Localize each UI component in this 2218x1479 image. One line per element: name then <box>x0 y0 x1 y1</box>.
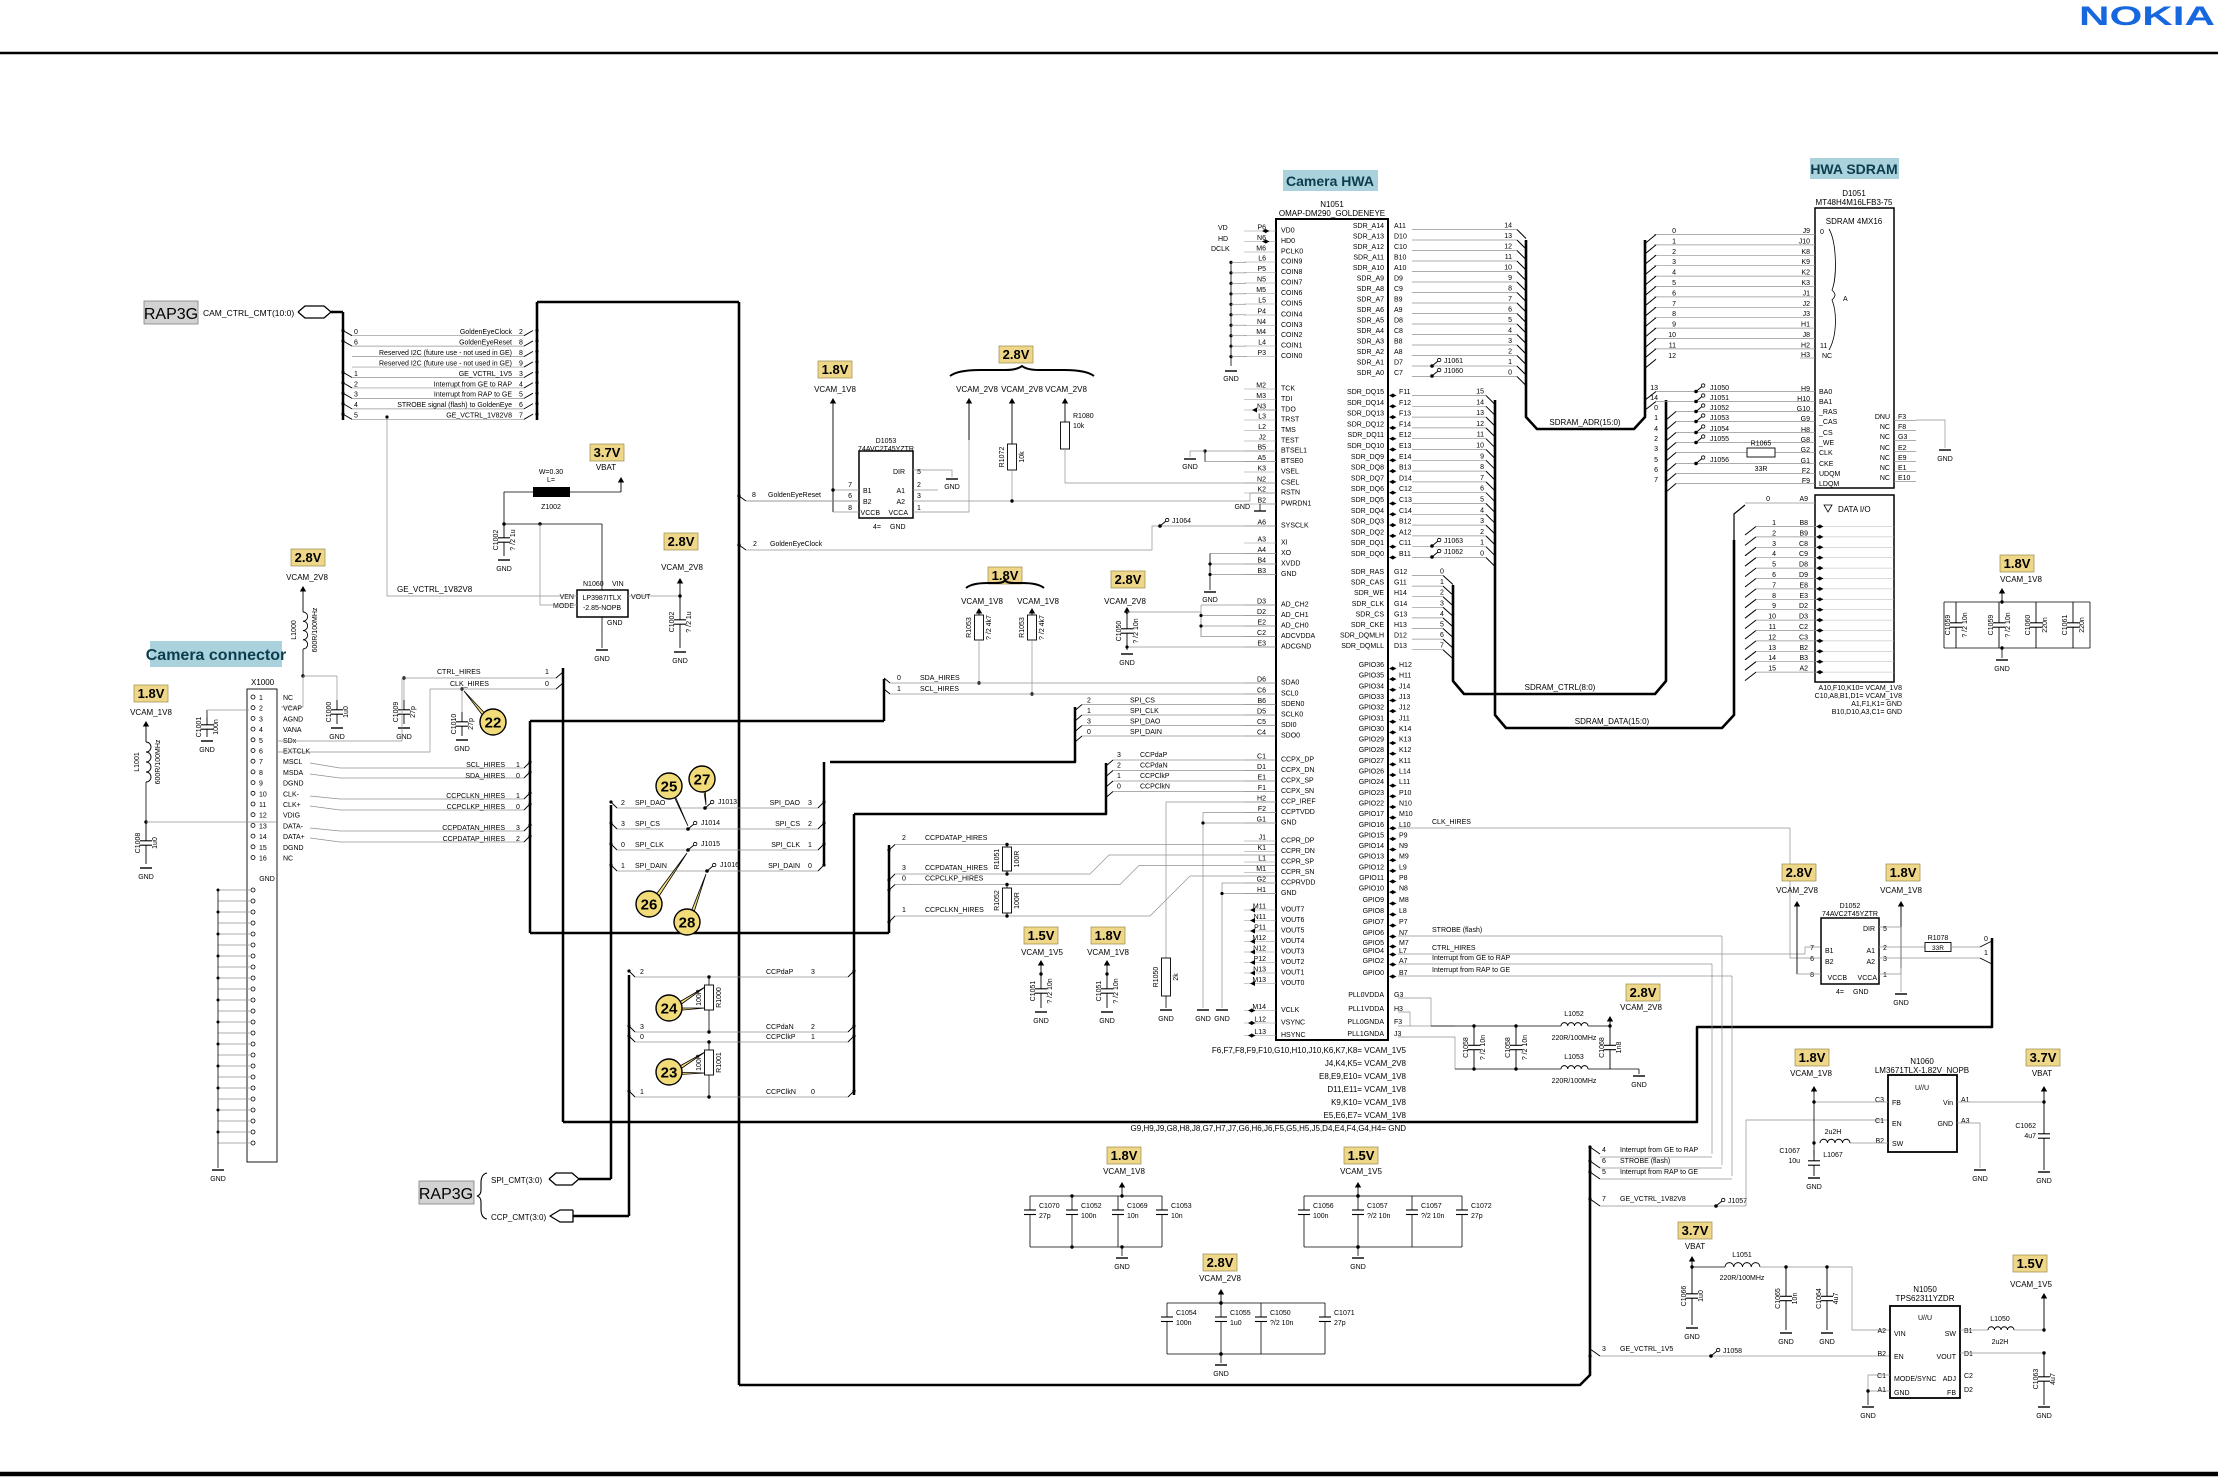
svg-text:VANA: VANA <box>283 727 302 734</box>
svg-text:GPIO16: GPIO16 <box>1359 822 1384 829</box>
svg-text:VCAM_2V8: VCAM_2V8 <box>1001 385 1043 394</box>
svg-text:J1064: J1064 <box>1172 518 1191 525</box>
capacitor C1060 220n <box>2035 602 2037 623</box>
wire row GoldenEyeReset <box>352 345 524 347</box>
svg-text:GoldenEyeClock: GoldenEyeClock <box>460 329 513 336</box>
svg-text:2: 2 <box>808 821 812 828</box>
wire SDA_HIRES row <box>890 682 1276 684</box>
svg-text:K1: K1 <box>1257 845 1266 852</box>
svg-text:GPIO29: GPIO29 <box>1359 737 1384 744</box>
svg-text:6: 6 <box>259 749 263 756</box>
bus SDRAM_ADR chip side <box>1412 229 1517 231</box>
jumper J1063 <box>1430 544 1434 548</box>
svg-text:C1060: C1060 <box>2025 615 2032 636</box>
ground (CCPTVDD) <box>1197 1009 1209 1011</box>
svg-text:3.7V: 3.7V <box>1682 1223 1709 1238</box>
svg-text:11: 11 <box>1669 342 1676 349</box>
2.8V rail label (cap bank) <box>1203 1254 1237 1271</box>
capacitor C1002 (input) <box>503 524 505 538</box>
svg-text:PCLK0: PCLK0 <box>1281 249 1303 256</box>
connector pin 13 DATA- <box>251 823 255 827</box>
svg-text:SPI_DAO: SPI_DAO <box>770 800 801 807</box>
svg-text:GND: GND <box>496 566 512 573</box>
svg-text:A1: A1 <box>1877 1387 1886 1394</box>
wire TDO arrow <box>1252 408 1257 413</box>
ground (XTAL) <box>1204 591 1216 593</box>
svg-text:HWA SDRAM: HWA SDRAM <box>1810 161 1897 177</box>
wire SPI_DAO (SPI_CMT bit 2) <box>617 807 818 809</box>
svg-text:SDR_DQ11: SDR_DQ11 <box>1348 432 1385 439</box>
svg-text:GE_VCTRL_1V5: GE_VCTRL_1V5 <box>459 371 512 378</box>
1.8V rail label (D1052) <box>1886 864 1920 881</box>
svg-text:C2: C2 <box>1257 630 1266 637</box>
ground (N1060) <box>1974 1169 1986 1171</box>
svg-text:33R: 33R <box>1755 466 1768 473</box>
wire XO/XVDD/GND cluster <box>1210 553 1276 555</box>
svg-text:Camera connector: Camera connector <box>146 647 287 664</box>
connector pin 12 VDIG <box>251 813 255 817</box>
svg-text:GPIO22: GPIO22 <box>1359 800 1384 807</box>
svg-text:Interrupt from RAP to GE: Interrupt from RAP to GE <box>1620 1169 1698 1176</box>
svg-text:NC: NC <box>283 695 293 702</box>
svg-text:C1056: C1056 <box>1313 1203 1334 1210</box>
svg-text:GND: GND <box>210 1176 226 1183</box>
svg-text:1u0: 1u0 <box>152 837 159 849</box>
svg-text:CCPX_DN: CCPX_DN <box>1281 767 1314 774</box>
svg-text:H11: H11 <box>1399 673 1411 680</box>
svg-text:D12: D12 <box>1394 633 1407 640</box>
svg-text:K12: K12 <box>1399 747 1412 754</box>
svg-text:SPI_CS: SPI_CS <box>1130 698 1155 705</box>
resistor R1001 100R termination <box>708 1042 710 1050</box>
brace 2.8V group <box>950 366 1094 376</box>
svg-text:4: 4 <box>1602 1147 1606 1154</box>
svg-text:SDR_DQ15: SDR_DQ15 <box>1347 389 1384 396</box>
svg-text:B1: B1 <box>1825 948 1834 955</box>
callout circle 23 <box>669 1052 705 1075</box>
capacitor C1057 ?/2 10n <box>1357 1196 1359 1210</box>
bus entry hexagon <box>298 306 331 318</box>
svg-text:27: 27 <box>694 772 711 789</box>
wire CCPClkN to chip <box>1113 791 1276 793</box>
wire row GoldenEyeClock <box>352 335 524 337</box>
wire SPI_CLK (SPI_CMT bit 0) <box>617 849 818 851</box>
svg-text:SDO0: SDO0 <box>1281 733 1300 740</box>
svg-text:VCAM_1V8: VCAM_1V8 <box>814 385 856 394</box>
capacitor C1008 1u0 <box>145 822 147 841</box>
svg-text:VOUT4: VOUT4 <box>1281 938 1304 945</box>
ground (C1001) <box>201 740 213 742</box>
svg-text:L1067: L1067 <box>1823 1152 1843 1159</box>
wire VCAM_2V8 rail to connector <box>302 649 304 676</box>
svg-text:2: 2 <box>1440 590 1444 597</box>
svg-text:GND: GND <box>1223 376 1239 383</box>
svg-text:TMS: TMS <box>1281 427 1296 434</box>
svg-text:8: 8 <box>259 770 263 777</box>
wire row Reserved I2C (future use - not used in GE) <box>352 366 524 368</box>
svg-text:CCPRVDD: CCPRVDD <box>1281 880 1316 887</box>
svg-text:3.7V: 3.7V <box>594 445 621 460</box>
jumper J1015 <box>686 848 690 852</box>
svg-text:3: 3 <box>808 800 812 807</box>
svg-text:K2: K2 <box>1801 270 1810 277</box>
svg-text:GND: GND <box>1806 1184 1822 1191</box>
svg-text:GND: GND <box>1860 1413 1876 1420</box>
wire CCPDATAN_HIRES from connector <box>340 830 524 832</box>
svg-text:13: 13 <box>1768 645 1776 652</box>
svg-text:AD_CH2: AD_CH2 <box>1281 602 1309 609</box>
capacitor C1058 a <box>1473 1026 1475 1045</box>
ground (connector) <box>212 1169 224 1171</box>
svg-text:VEN: VEN <box>560 594 574 601</box>
bottom border line <box>0 1472 2218 1476</box>
wire Interrupt from GE to RAP (bottom) <box>1590 1147 1600 1154</box>
connector pin 8 MSDA <box>251 770 255 774</box>
svg-text:3: 3 <box>902 865 906 872</box>
svg-text:1: 1 <box>917 505 921 512</box>
svg-text:GPIO24: GPIO24 <box>1359 779 1384 786</box>
svg-text:K9: K9 <box>1801 259 1810 266</box>
svg-text:VCAM_1V8: VCAM_1V8 <box>2000 575 2042 584</box>
svg-text:D1: D1 <box>1257 764 1266 771</box>
ground (C1062) <box>2038 1171 2050 1173</box>
capacitor C1053 10n <box>1161 1196 1163 1210</box>
svg-text:SDR_A5: SDR_A5 <box>1357 318 1384 325</box>
svg-text:E8,E9,E10= VCAM_1V8: E8,E9,E10= VCAM_1V8 <box>1319 1072 1406 1081</box>
ground (D1052) <box>1895 993 1907 995</box>
svg-text:? /2 10n: ? /2 10n <box>1522 1035 1529 1060</box>
svg-text:CCPCLKN_HIRES: CCPCLKN_HIRES <box>446 793 505 800</box>
svg-text:N5: N5 <box>1257 277 1266 284</box>
inductor L1000 600R/100MHz <box>302 589 304 612</box>
ground (cap bank) <box>1121 1247 1123 1256</box>
svg-text:N3: N3 <box>1257 404 1266 411</box>
svg-text:5: 5 <box>1672 280 1676 287</box>
svg-text:C3: C3 <box>1799 634 1808 641</box>
svg-text:GND: GND <box>607 620 623 627</box>
svg-text:G8: G8 <box>1801 437 1810 444</box>
svg-text:? /2 10n: ? /2 10n <box>1047 978 1054 1003</box>
wire connector pin stub <box>310 763 340 768</box>
connector pin 4 VANA <box>251 727 255 731</box>
svg-text:C3: C3 <box>1875 1097 1884 1104</box>
svg-text:D2: D2 <box>1964 1387 1973 1394</box>
wire CCPDATAP_HIRES row <box>895 844 1276 846</box>
svg-text:GND: GND <box>1114 1264 1130 1271</box>
svg-text:Vin: Vin <box>1943 1100 1953 1107</box>
svg-text:G10: G10 <box>1797 406 1810 413</box>
svg-text:GoldenEyeClock: GoldenEyeClock <box>770 541 823 548</box>
svg-text:GND: GND <box>259 876 275 883</box>
svg-text:1: 1 <box>1480 540 1484 547</box>
svg-text:4: 4 <box>1440 611 1444 618</box>
svg-text:C4: C4 <box>1257 730 1266 737</box>
svg-text:27p: 27p <box>1039 1213 1051 1220</box>
svg-text:L4: L4 <box>1258 340 1266 347</box>
svg-text:J1015: J1015 <box>701 841 720 848</box>
svg-text:Interrupt from GE to RAP: Interrupt from GE to RAP <box>434 381 513 388</box>
svg-text:27p: 27p <box>1471 1213 1483 1220</box>
svg-text:STROBE (flash): STROBE (flash) <box>1620 1158 1670 1165</box>
svg-text:J1050: J1050 <box>1710 385 1729 392</box>
svg-text:3: 3 <box>1508 338 1512 345</box>
memory D1051 MT48H4M16LFB3-75 <box>1815 208 1894 488</box>
svg-text:GPIO36: GPIO36 <box>1359 662 1384 669</box>
svg-text:SDR_DQ2: SDR_DQ2 <box>1351 529 1384 536</box>
bus trunk box top edge <box>537 301 739 304</box>
svg-text:5: 5 <box>519 392 523 399</box>
svg-text:6: 6 <box>848 493 852 500</box>
svg-text:D3: D3 <box>1257 599 1266 606</box>
svg-text:J1013: J1013 <box>718 799 737 806</box>
svg-text:J1055: J1055 <box>1710 436 1729 443</box>
svg-text:9: 9 <box>259 781 263 788</box>
svg-text:M5: M5 <box>1256 287 1266 294</box>
svg-text:1: 1 <box>897 686 901 693</box>
wire VOUT arrows <box>1250 908 1255 913</box>
svg-text:1: 1 <box>1440 579 1444 586</box>
wire GE_VCTRL_1V82V8 (bottom) <box>1590 1199 1600 1206</box>
svg-text:M9: M9 <box>1399 854 1409 861</box>
svg-text:R1050: R1050 <box>1153 967 1160 988</box>
svg-text:CCPClkN: CCPClkN <box>1140 784 1170 791</box>
capacitor C1056 100n <box>1303 1196 1305 1210</box>
svg-text:C1068: C1068 <box>1599 1037 1606 1058</box>
svg-text:SCL0: SCL0 <box>1281 691 1299 698</box>
svg-text:SDR_A11: SDR_A11 <box>1353 255 1384 262</box>
svg-text:220R/100MHz: 220R/100MHz <box>1552 1035 1597 1042</box>
svg-text:_CAS: _CAS <box>1818 419 1838 426</box>
svg-text:0: 0 <box>621 842 625 849</box>
resistor R1050 2k (CCP_IREF) <box>1166 802 1276 958</box>
svg-text:CCPDATAN_HIRES: CCPDATAN_HIRES <box>925 865 988 872</box>
inductor L1051 220R/100MHz <box>1692 1266 1725 1268</box>
svg-text:L1053: L1053 <box>1564 1054 1584 1061</box>
wire PLL1VDDA <box>1398 1012 1410 1026</box>
wire SCL_HIRES row <box>890 693 1276 695</box>
svg-text:MODE/SYNC: MODE/SYNC <box>1894 1376 1936 1383</box>
svg-text:J1062: J1062 <box>1444 549 1463 556</box>
wire STROBE (flash) <box>1398 935 1722 937</box>
svg-text:GND: GND <box>672 658 688 665</box>
svg-text:BTSE0: BTSE0 <box>1281 458 1303 465</box>
wire SPI_CLK to chip <box>1082 714 1276 716</box>
svg-text:0: 0 <box>545 681 549 688</box>
svg-text:A5: A5 <box>1257 455 1266 462</box>
svg-text:SDRAM_DATA(15:0): SDRAM_DATA(15:0) <box>1575 717 1650 726</box>
ground (C1050) <box>1121 653 1133 655</box>
svg-text:600R/100MHz: 600R/100MHz <box>155 739 162 784</box>
wire VCAM_1V8 to B1 <box>833 489 859 491</box>
svg-text:G9: G9 <box>1801 416 1810 423</box>
svg-text:J10: J10 <box>1799 238 1810 245</box>
svg-text:GND: GND <box>890 524 906 531</box>
1.5V rail label (cap bank) <box>1344 1147 1378 1164</box>
svg-text:J8: J8 <box>1803 332 1811 339</box>
svg-text:GPIO17: GPIO17 <box>1359 811 1384 818</box>
svg-text:VOUT6: VOUT6 <box>1281 917 1304 924</box>
svg-text:GPIO14: GPIO14 <box>1359 843 1384 850</box>
svg-text:VIN: VIN <box>612 581 624 588</box>
wire SPI_DAIN to chip <box>1082 735 1276 737</box>
resistor R1072 10k <box>1011 401 1013 444</box>
wire STROBE riser <box>1721 936 1723 1165</box>
brace 1.8V group <box>966 580 1044 588</box>
wire A2 output bit1 <box>1879 957 1980 959</box>
wire DNU to GND <box>1916 420 1945 448</box>
svg-text:M8: M8 <box>1399 897 1409 904</box>
svg-text:GND: GND <box>1281 890 1297 897</box>
svg-text:B9: B9 <box>1799 530 1808 537</box>
svg-text:TCK: TCK <box>1281 386 1295 393</box>
svg-text:SW: SW <box>1892 1141 1904 1148</box>
svg-text:B12: B12 <box>1399 519 1412 526</box>
wire GoldenEyeClock riser to SYSCLK <box>1152 526 1276 550</box>
svg-text:C10,A8,B1,D1= VCAM_1V8: C10,A8,B1,D1= VCAM_1V8 <box>1815 693 1902 700</box>
capacitor C1055 1u0 <box>1220 1303 1222 1317</box>
svg-text:12: 12 <box>1476 421 1484 428</box>
svg-text:CCPdaN: CCPdaN <box>766 1024 794 1031</box>
svg-text:GE_VCTRL_1V82V8: GE_VCTRL_1V82V8 <box>446 413 512 420</box>
svg-text:3: 3 <box>1440 600 1444 607</box>
svg-text:1.8V: 1.8V <box>138 686 165 701</box>
svg-text:TDO: TDO <box>1281 407 1296 414</box>
svg-text:C6: C6 <box>1257 688 1266 695</box>
NOKIA logo <box>2079 1 2215 31</box>
wire CCP_CMT to bus riser <box>573 1215 629 1218</box>
svg-text:1u0: 1u0 <box>1698 1290 1705 1302</box>
svg-text:N10: N10 <box>1399 800 1412 807</box>
svg-text:10n: 10n <box>1792 1293 1799 1305</box>
svg-text:GPIO4: GPIO4 <box>1363 948 1385 955</box>
svg-text:SDR_CKE: SDR_CKE <box>1351 622 1384 629</box>
svg-text:GoldenEyeReset: GoldenEyeReset <box>768 492 821 499</box>
svg-text:11: 11 <box>259 802 266 809</box>
svg-text:8: 8 <box>1772 593 1776 600</box>
svg-text:J1: J1 <box>1259 835 1267 842</box>
svg-text:C1070: C1070 <box>1039 1203 1060 1210</box>
svg-text:C1065: C1065 <box>1775 1288 1782 1309</box>
svg-text:MODE: MODE <box>553 603 574 610</box>
wire Z1002 left to rail <box>504 492 533 524</box>
svg-text:VOUT2: VOUT2 <box>1281 959 1304 966</box>
resistor R1053 4k7 (SCL pullup) <box>1031 611 1033 615</box>
svg-text:N12: N12 <box>1253 946 1266 953</box>
svg-text:A2: A2 <box>1866 959 1875 966</box>
svg-text:LDQM: LDQM <box>1819 481 1839 488</box>
svg-text:R1053: R1053 <box>966 617 973 638</box>
svg-text:D9: D9 <box>1394 276 1403 283</box>
wire CCPDATAN_HIRES row <box>895 855 1276 874</box>
svg-text:5: 5 <box>1508 317 1512 324</box>
svg-text:6: 6 <box>1602 1158 1606 1165</box>
svg-text:3: 3 <box>1117 752 1121 759</box>
svg-text:5: 5 <box>354 413 358 420</box>
power arrow VCAM_1V8 to VCCA <box>1900 904 1902 968</box>
capacitor C1010 27p <box>461 689 463 712</box>
svg-text:GND: GND <box>1631 1082 1647 1089</box>
svg-text:GoldenEyeReset: GoldenEyeReset <box>459 339 512 346</box>
svg-text:D1053: D1053 <box>876 438 897 445</box>
svg-text:8: 8 <box>1480 464 1484 471</box>
svg-text:?/2 10n: ?/2 10n <box>1367 1213 1390 1220</box>
svg-text:SPI_DAIN: SPI_DAIN <box>768 863 800 870</box>
svg-text:SDI0: SDI0 <box>1281 722 1297 729</box>
svg-text:1.8V: 1.8V <box>2004 556 2031 571</box>
svg-text:B2: B2 <box>1799 645 1808 652</box>
callout circle 25 <box>669 786 688 826</box>
ground (CCPRVDD) <box>1216 1009 1228 1011</box>
svg-text:1: 1 <box>621 863 625 870</box>
2.8V rail label (LP3987 out) <box>664 533 698 550</box>
svg-text:Camera HWA: Camera HWA <box>1286 173 1374 189</box>
svg-text:14: 14 <box>1650 395 1658 402</box>
svg-text:D6: D6 <box>1257 677 1266 684</box>
svg-text:7: 7 <box>848 482 852 489</box>
svg-text:Reserved I2C (future use - not: Reserved I2C (future use - not used in G… <box>379 360 512 367</box>
svg-text:2: 2 <box>259 706 263 713</box>
svg-text:CCP_CMT(3:0): CCP_CMT(3:0) <box>491 1213 546 1222</box>
svg-text:2: 2 <box>516 836 520 843</box>
svg-text:N13: N13 <box>1253 967 1266 974</box>
svg-text:SPI_CLK: SPI_CLK <box>771 842 800 849</box>
svg-text:GPIO12: GPIO12 <box>1359 864 1384 871</box>
svg-text:J13: J13 <box>1399 694 1410 701</box>
svg-text:5: 5 <box>1440 622 1444 629</box>
svg-text:X1000: X1000 <box>251 678 275 687</box>
svg-text:NC: NC <box>1880 475 1890 482</box>
svg-text:7: 7 <box>519 413 523 420</box>
svg-text:GND: GND <box>1937 1121 1953 1128</box>
svg-text:STROBE (flash): STROBE (flash) <box>1432 927 1482 934</box>
connector pin 1 NC <box>251 695 255 699</box>
svg-text:R1080: R1080 <box>1073 413 1094 420</box>
svg-text:COIN6: COIN6 <box>1281 290 1303 297</box>
svg-text:C8: C8 <box>1799 541 1808 548</box>
svg-text:Interrupt from GE to RAP: Interrupt from GE to RAP <box>1620 1147 1699 1154</box>
svg-text:VCAM_1V8: VCAM_1V8 <box>1103 1167 1145 1176</box>
svg-text:HD: HD <box>1218 236 1228 243</box>
svg-text:4u7: 4u7 <box>2050 1373 2057 1385</box>
svg-text:N1060: N1060 <box>1910 1057 1934 1066</box>
svg-text:VCAM_1V8: VCAM_1V8 <box>130 708 172 717</box>
svg-text:9: 9 <box>1508 275 1512 282</box>
wire L1051 to VIN <box>1760 1267 1890 1330</box>
svg-text:GND: GND <box>1819 1339 1835 1346</box>
svg-text:E1: E1 <box>1898 465 1907 472</box>
svg-text:5: 5 <box>1480 497 1484 504</box>
svg-text:SDA0: SDA0 <box>1281 680 1299 687</box>
svg-text:C1002: C1002 <box>669 612 676 633</box>
svg-text:33R: 33R <box>1932 945 1944 952</box>
svg-text:CCPR_SP: CCPR_SP <box>1281 859 1314 866</box>
regulator N1060 LM3671TLX-1.82V_NOPB <box>1888 1075 1957 1152</box>
svg-text:2: 2 <box>1508 349 1512 356</box>
wire CCPdaN to chip <box>1113 770 1276 772</box>
capacitor C1059 ? /2 10n <box>1955 602 1957 623</box>
wire ADCGND <box>1127 646 1276 648</box>
svg-text:GPIO5: GPIO5 <box>1363 940 1385 947</box>
svg-text:C1002: C1002 <box>493 530 500 551</box>
svg-text:_RAS: _RAS <box>1818 409 1838 416</box>
ground (C1002 input) <box>498 559 510 561</box>
2.8V rail label (PLL) <box>1626 984 1660 1001</box>
svg-text:U//U: U//U <box>1915 1085 1929 1092</box>
svg-text:_CS: _CS <box>1818 430 1833 437</box>
ground (C1065) <box>1780 1332 1792 1334</box>
svg-text:GND: GND <box>1281 820 1297 827</box>
svg-text:C1: C1 <box>1877 1373 1886 1380</box>
